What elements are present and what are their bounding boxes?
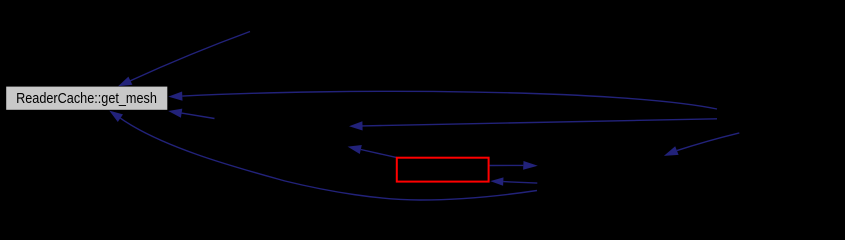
svg-text:ReaderCache::get_mesh: ReaderCache::get_mesh <box>16 91 157 107</box>
